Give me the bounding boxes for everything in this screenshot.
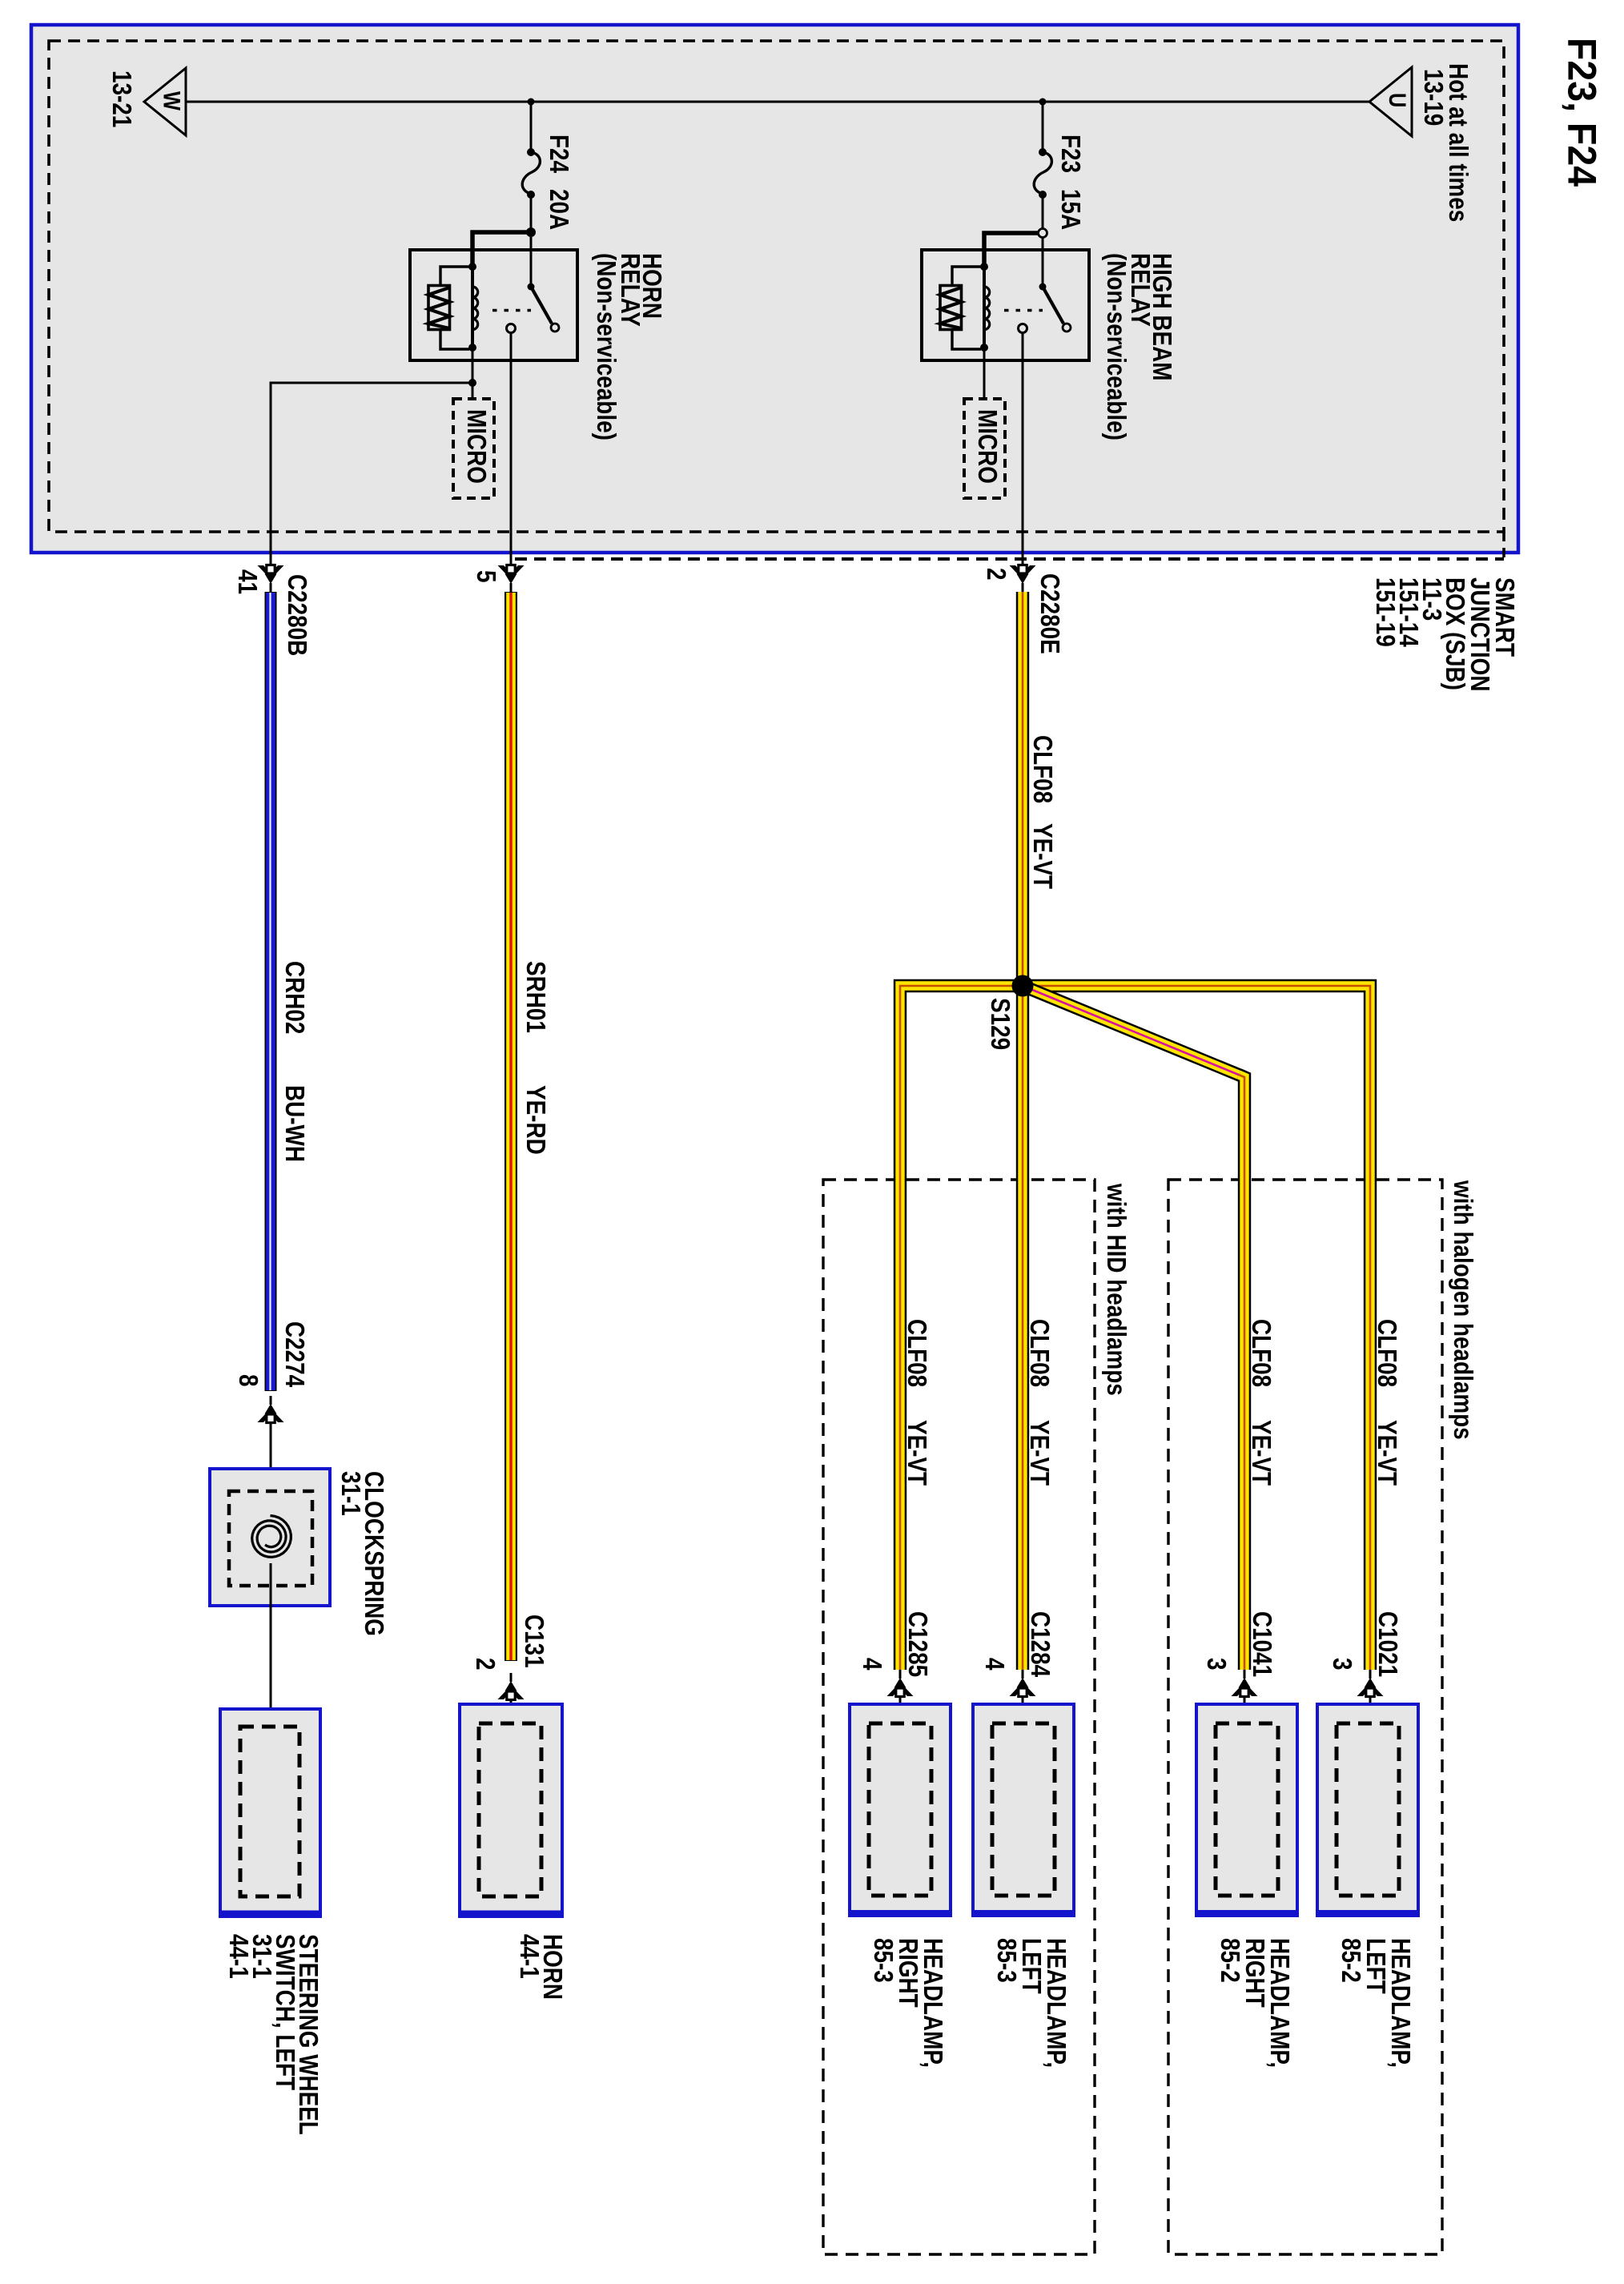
headlamp inner dashed box RIGHT 85-3	[869, 1723, 931, 1896]
SJB connector plane dashed right edge	[1502, 532, 1505, 559]
junction dot bus/F23	[1039, 99, 1047, 106]
off-page connector triangle U	[1369, 67, 1412, 136]
svg-text:85-3: 85-3	[992, 1938, 1022, 1983]
yellow-red wire SRH01 YE-RD	[504, 592, 517, 1661]
blue wire CRH02 BU-WH	[264, 592, 277, 1391]
svg-text:41: 41	[233, 569, 263, 594]
svg-text:2: 2	[471, 1658, 500, 1671]
horn relay thick feed wire	[472, 232, 531, 267]
connector arrow 2 C2280E (down)	[1010, 565, 1036, 593]
wire into headlamp LEFT 85-2	[1369, 1695, 1372, 1730]
junction circle F23 feed	[1039, 229, 1047, 238]
svg-text:C1041: C1041	[1248, 1611, 1277, 1677]
splice branch wire right to headlamp left halogen	[1023, 986, 1370, 1670]
high beam relay output terminal circle	[1019, 324, 1027, 333]
svg-text:5: 5	[472, 570, 501, 583]
svg-text:4: 4	[980, 1658, 1010, 1671]
headlamp box bottom border LEFT 85-2	[1319, 1910, 1417, 1916]
high beam relay box	[922, 250, 1089, 360]
horn relay switch common wire	[530, 237, 533, 287]
connector arrow (headlamp LEFT 85-2)	[1357, 1670, 1384, 1697]
svg-text:MICRO: MICRO	[462, 409, 492, 484]
steering wheel switch box	[220, 1709, 320, 1916]
wire horn coil to C2280B column	[271, 383, 472, 565]
svg-text:151-19: 151-19	[1371, 577, 1401, 647]
connector arrow 41 C2280B (down)	[258, 565, 284, 593]
high beam relay actuation dotted line	[1004, 309, 1043, 312]
headlamp box bottom border LEFT 85-3	[975, 1910, 1072, 1916]
connector arrow (headlamp LEFT 85-3)	[1010, 1670, 1036, 1697]
svg-text:CLF08: CLF08	[1247, 1319, 1276, 1387]
high beam relay switch common wire	[1042, 237, 1044, 287]
svg-text:15A: 15A	[1056, 189, 1086, 230]
connector arrow (headlamp RIGHT 85-2)	[1232, 1670, 1258, 1697]
smart junction box SJB outer blue border	[31, 25, 1518, 553]
wire fuse F23 to junction	[1042, 193, 1044, 229]
svg-text:YE-VT: YE-VT	[1373, 1420, 1402, 1486]
headlamp box bottom border RIGHT 85-3	[851, 1910, 949, 1916]
horn MICRO dashed box	[453, 399, 494, 498]
headlamp box RIGHT 85-2	[1196, 1704, 1297, 1916]
svg-text:3: 3	[1202, 1658, 1232, 1671]
connector arrow C131 (up)	[498, 1673, 525, 1700]
fuse F24 symbol	[522, 148, 540, 199]
horn relay suppression resistor	[428, 267, 469, 349]
svg-text:S129: S129	[986, 998, 1015, 1050]
headlamp box LEFT 85-3	[973, 1704, 1074, 1916]
junction dot coil/steering wire	[468, 379, 476, 387]
svg-text:MICRO: MICRO	[973, 409, 1003, 484]
fuse F23 symbol	[1034, 148, 1051, 199]
high beam relay thick feed wire	[984, 233, 1039, 267]
connector arrow 8 C2274 (up)	[258, 1396, 284, 1423]
headlamp inner dashed box LEFT 85-3	[992, 1723, 1055, 1896]
wire C131 to horn	[510, 1699, 513, 1728]
svg-text:85-2: 85-2	[1216, 1938, 1245, 1983]
svg-text:C131: C131	[520, 1614, 549, 1668]
svg-text:C1284: C1284	[1026, 1611, 1055, 1677]
svg-text:(Non-serviceable): (Non-serviceable)	[1102, 253, 1132, 440]
horn relay coil	[468, 263, 478, 352]
svg-text:(Non-serviceable): (Non-serviceable)	[592, 253, 621, 440]
svg-text:BU-WH: BU-WH	[280, 1085, 310, 1162]
wire bus to fuse F24	[530, 102, 533, 151]
horn relay actuation dotted line	[492, 309, 531, 312]
headlamp inner dashed box RIGHT 85-2	[1216, 1723, 1278, 1896]
clockspring spiral symbol	[252, 1516, 291, 1558]
clockspring box	[210, 1469, 330, 1606]
with halogen headlamps dashed box	[1168, 1180, 1442, 2254]
headlamp box LEFT 85-2	[1317, 1704, 1418, 1916]
connector arrow 5 (down)	[498, 565, 525, 593]
off-page connector triangle W	[144, 68, 186, 135]
wire clockspring to steering wheel switch	[270, 1563, 272, 1730]
svg-text:85-3: 85-3	[869, 1938, 898, 1983]
svg-text:F24: F24	[545, 135, 574, 173]
high beam relay switch pivot	[1039, 283, 1047, 291]
svg-text:Hot at all times: Hot at all times	[1444, 63, 1473, 222]
svg-text:CLF08: CLF08	[1025, 1319, 1055, 1387]
svg-text:C1285: C1285	[903, 1611, 933, 1677]
svg-text:F23: F23	[1056, 135, 1086, 173]
svg-text:C1021: C1021	[1373, 1611, 1403, 1677]
with HID headlamps dashed box	[823, 1180, 1095, 2254]
horn relay switch arm contact circle	[551, 324, 559, 332]
horn box	[460, 1704, 562, 1916]
high beam relay switch arm contact circle	[1063, 324, 1071, 332]
splice S129 dot	[1012, 975, 1034, 997]
svg-text:YE-VT: YE-VT	[902, 1420, 932, 1486]
yellow wire C2280E CLF08 YE-VT vertical main	[1016, 592, 1029, 1670]
wire into headlamp RIGHT 85-3	[899, 1695, 902, 1730]
steering wheel switch box bottom border	[222, 1911, 319, 1916]
svg-text:YE-VT: YE-VT	[1247, 1420, 1276, 1486]
splice diagonal branch wire to headlamp right halogen (vertical)	[1239, 1075, 1244, 1670]
svg-text:C2280E: C2280E	[1035, 573, 1065, 654]
power bus wire from triangle W to triangle U	[186, 101, 1369, 103]
svg-text:CLF08: CLF08	[1373, 1319, 1402, 1387]
horn relay output terminal circle	[507, 324, 516, 333]
svg-text:31-1: 31-1	[336, 1471, 366, 1516]
svg-text:YE-VT: YE-VT	[1028, 823, 1058, 889]
svg-text:YE-RD: YE-RD	[521, 1085, 551, 1155]
splice diagonal branch wire to headlamp right halogen (diagonal)	[1023, 986, 1244, 1077]
svg-text:3: 3	[1328, 1658, 1357, 1671]
horn relay coil lower wire	[472, 349, 474, 400]
SJB inner dashed border	[49, 41, 1504, 532]
clockspring inner dashed box	[229, 1491, 312, 1586]
svg-text:2: 2	[982, 568, 1011, 581]
high beam relay switch arm	[1043, 287, 1063, 324]
wire fuse F24 to junction	[530, 193, 533, 232]
svg-text:with halogen headlamps: with halogen headlamps	[1449, 1180, 1478, 1440]
svg-text:W: W	[159, 91, 185, 111]
svg-text:8: 8	[234, 1374, 263, 1387]
svg-text:CLF08: CLF08	[1028, 735, 1058, 803]
steering wheel switch inner dashed box	[240, 1727, 299, 1896]
horn relay switch arm	[531, 287, 552, 324]
wire into headlamp RIGHT 85-2	[1244, 1695, 1246, 1730]
svg-text:4: 4	[858, 1658, 887, 1671]
svg-text:F23, F24: F23, F24	[1559, 38, 1604, 187]
svg-text:YE-VT: YE-VT	[1025, 1420, 1055, 1486]
svg-text:C2280B: C2280B	[283, 574, 312, 656]
horn box bottom border	[461, 1911, 561, 1916]
svg-text:13-21: 13-21	[107, 70, 137, 127]
wire C2274 to clockspring	[270, 1421, 272, 1516]
SJB connector plane dashed line	[515, 557, 1504, 561]
label SMART JUNCTION BOX (SJB) 11-3 151-14 151-19	[1371, 577, 1520, 691]
svg-text:44-1: 44-1	[515, 1934, 545, 1979]
horn relay output wire to connector 5	[510, 332, 513, 565]
junction dot F24 feed	[526, 227, 536, 237]
wire bus to fuse F23	[1042, 102, 1044, 151]
high beam relay coil	[980, 263, 990, 352]
svg-text:CLF08: CLF08	[902, 1319, 932, 1387]
svg-text:44-1: 44-1	[224, 1934, 254, 1979]
high beam relay coil lower wire	[983, 349, 986, 400]
svg-text:C2274: C2274	[280, 1321, 310, 1387]
svg-text:CRH02: CRH02	[280, 961, 310, 1034]
high beam MICRO dashed box	[964, 399, 1005, 498]
horn relay box	[410, 250, 577, 360]
svg-text:20A: 20A	[545, 189, 574, 230]
junction dot bus/F24	[528, 99, 535, 106]
headlamp box bottom border RIGHT 85-2	[1198, 1910, 1296, 1916]
connector arrow (headlamp RIGHT 85-3)	[887, 1670, 914, 1697]
horn inner dashed box	[479, 1723, 541, 1896]
svg-text:SRH01: SRH01	[521, 961, 551, 1033]
horn relay switch pivot	[528, 283, 535, 291]
headlamp inner dashed box LEFT 85-2	[1337, 1723, 1399, 1896]
svg-text:85-2: 85-2	[1337, 1938, 1366, 1983]
svg-text:with HID headlamps: with HID headlamps	[1102, 1183, 1132, 1396]
high beam relay suppression resistor	[940, 267, 981, 349]
svg-text:U: U	[1384, 93, 1410, 107]
splice branch wire left to headlamp right HID	[900, 986, 1023, 1670]
wire into headlamp LEFT 85-3	[1022, 1695, 1024, 1730]
high beam relay output wire to connector 2	[1022, 332, 1024, 565]
headlamp box RIGHT 85-3	[850, 1704, 951, 1916]
